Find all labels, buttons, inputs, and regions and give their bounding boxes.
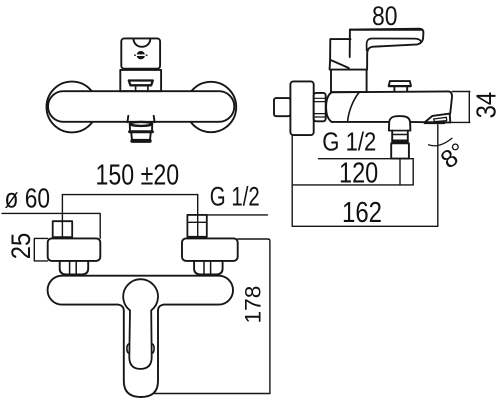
spout end cap (side) xyxy=(449,91,452,113)
svg-text:120: 120 xyxy=(339,158,378,190)
left nut facets xyxy=(70,261,77,275)
diverter dark band xyxy=(392,140,408,144)
cartridge cap plate xyxy=(389,81,411,86)
diverter neck ring line xyxy=(392,134,408,136)
left eccentric square xyxy=(53,221,72,237)
svg-text:8°: 8° xyxy=(435,137,471,174)
mixer body (bottom view) top and ends xyxy=(48,276,233,305)
diverter center leader xyxy=(399,159,401,185)
body left cap (side) xyxy=(326,92,332,122)
nut serrations xyxy=(314,98,326,117)
handle screw ticks xyxy=(135,54,147,56)
aerator inner face xyxy=(434,117,447,121)
aerator dark base xyxy=(425,121,444,124)
svg-text:150 ±20: 150 ±20 xyxy=(96,160,180,192)
G 1/2 underline (bottom) xyxy=(187,214,267,216)
base detail bar xyxy=(129,81,153,86)
lever front edge xyxy=(349,30,351,57)
body-spout fillet right xyxy=(158,305,164,311)
handle base (side) xyxy=(331,70,367,93)
spout ring 2 thick tip xyxy=(132,139,149,143)
svg-text:G 1/2: G 1/2 xyxy=(322,126,376,156)
body bottom line left xyxy=(332,121,389,123)
dia 60 leader xyxy=(2,213,100,238)
svg-text:34: 34 xyxy=(470,92,500,119)
dim 162 bottom line xyxy=(292,225,438,227)
mixer body (front) xyxy=(48,91,234,122)
dim 120 line xyxy=(292,184,413,186)
spout ring 1 xyxy=(130,125,152,130)
dim 120 right link xyxy=(412,159,414,185)
dimension 80 line xyxy=(350,29,423,31)
left union nut xyxy=(60,261,88,275)
cartridge dome and inner column (keyhole) xyxy=(123,279,158,369)
handle screw slot xyxy=(137,54,145,56)
svg-text:80: 80 xyxy=(372,1,398,31)
diverter lower cylinder xyxy=(391,143,409,158)
left flange (bottom view) xyxy=(48,238,101,261)
spout ring 1 thick line xyxy=(130,130,153,133)
left wall flange circle xyxy=(47,82,98,133)
connection nut xyxy=(314,93,326,121)
dim 34 bottom extension xyxy=(450,121,470,123)
diverter dome base line xyxy=(389,130,410,132)
svg-text:ø 60: ø 60 xyxy=(5,183,51,214)
sleeve right bump xyxy=(152,344,154,354)
dim 34 line xyxy=(468,92,470,123)
right square inner line xyxy=(187,221,206,223)
G 1/2 underline (side) xyxy=(319,158,414,160)
svg-text:G 1/2: G 1/2 xyxy=(210,182,260,212)
body-spout fillet left xyxy=(118,305,124,311)
right wall flange circle xyxy=(186,82,236,132)
lever handle (side) xyxy=(350,29,424,70)
aerator extension line xyxy=(437,125,439,227)
dim 34 top extension xyxy=(452,91,470,93)
svg-text:178: 178 xyxy=(241,286,266,324)
wall plane extension xyxy=(291,135,293,226)
dim 150 right leader xyxy=(197,195,199,237)
dim 150 left leader xyxy=(61,195,63,237)
cartridge cap underline xyxy=(389,85,411,87)
diverter neck xyxy=(392,131,408,144)
8 degree arc xyxy=(429,138,453,146)
wall flange (side) xyxy=(290,81,313,135)
handle base escutcheon xyxy=(120,70,161,91)
right flange (bottom view) xyxy=(182,238,238,261)
dim 25 bracket xyxy=(34,238,47,261)
handle scoop recess xyxy=(134,39,151,46)
handle screw xyxy=(137,51,145,59)
pivot block xyxy=(330,39,351,70)
aerator wedge xyxy=(425,114,451,123)
body top line (side) xyxy=(332,90,449,93)
svg-text:25: 25 xyxy=(6,233,36,260)
dim 150 line xyxy=(62,194,197,196)
handle (front) xyxy=(121,38,160,68)
right union nut xyxy=(194,261,223,275)
right nut facets xyxy=(204,261,211,275)
dim 178 top extension xyxy=(238,239,270,394)
wall pipe stub xyxy=(274,98,290,116)
dim 178 bottom extension xyxy=(154,393,270,395)
body cap seam xyxy=(348,93,359,122)
spout ring 2 xyxy=(131,133,150,139)
right eccentric square xyxy=(187,215,206,237)
base detail legs xyxy=(136,85,148,91)
sleeve left bump xyxy=(127,344,129,354)
svg-text:162: 162 xyxy=(342,197,382,229)
spout shoulder (front) xyxy=(127,116,154,122)
diverter dome xyxy=(389,116,411,131)
lever inner edge line xyxy=(367,39,421,51)
body bottom line right xyxy=(410,121,424,123)
spout collar lens xyxy=(130,122,152,126)
cartridge cap neck xyxy=(394,86,407,91)
spout outer tube xyxy=(124,311,158,397)
